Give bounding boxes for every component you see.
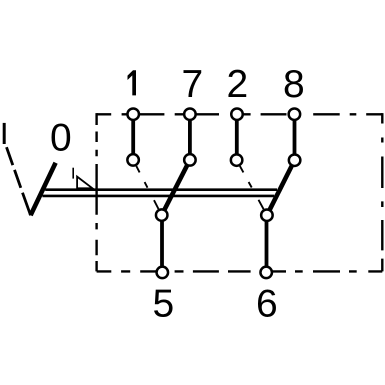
label terminal 1: [128, 70, 137, 95]
common contact right circle: [261, 209, 273, 221]
actuator lever (thick, position 0): [31, 163, 56, 216]
enclosure border left edge (dash-dot): [95, 113, 97, 271]
fixed contact 2 circle: [231, 154, 243, 166]
enclosure border top edge (dash-dot): [97, 113, 383, 115]
svg-text:5: 5: [152, 283, 174, 326]
movable contact arm 6-8 (closed position, thick): [269, 165, 292, 210]
svg-text:0: 0: [50, 116, 72, 159]
terminal 5 circle: [157, 267, 169, 279]
fixed contact 7 circle: [184, 154, 196, 166]
terminal 8 circle: [289, 108, 301, 120]
svg-text:8: 8: [283, 63, 305, 106]
enclosure border bottom edge (dash-dot): [97, 270, 383, 272]
wire stub terminal 7 to fixed contact 7: [188, 121, 192, 154]
svg-text:7: 7: [182, 63, 204, 106]
terminal 7 circle: [184, 108, 196, 120]
svg-text:6: 6: [256, 283, 278, 326]
common contact left circle: [156, 209, 168, 221]
terminal 1 circle: [127, 108, 139, 120]
terminal 6 circle: [260, 267, 272, 279]
fixed contact 8 circle: [289, 154, 301, 166]
detent triangle: [77, 177, 92, 189]
lever alternate position (dashed): [7, 147, 31, 215]
wire stub terminal 8 to fixed contact 8: [293, 121, 297, 154]
mechanical linkage bar (double line) upper: [45, 188, 277, 191]
movable contact arm 5-7 (closed position, thick): [164, 165, 187, 210]
enclosure border right edge (dash-dot): [381, 113, 383, 271]
svg-text:2: 2: [227, 63, 249, 106]
alternate contact path 6-2 (dashed): [240, 166, 264, 209]
lever end stop tick (far left): [3, 123, 6, 144]
terminal 2 circle: [231, 108, 243, 120]
mechanical linkage bar (double line) lower: [42, 195, 274, 198]
alternate contact path 5-1 (dashed): [136, 166, 158, 209]
fixed contact 1 circle: [127, 154, 139, 166]
wire stub common contact right to terminal 6: [265, 222, 269, 267]
wire stub common contact left to terminal 5: [160, 222, 164, 267]
detent tick: [72, 168, 74, 179]
wire stub terminal 2 to fixed contact 2: [235, 121, 239, 154]
wire stub terminal 1 to fixed contact 1: [131, 121, 135, 154]
